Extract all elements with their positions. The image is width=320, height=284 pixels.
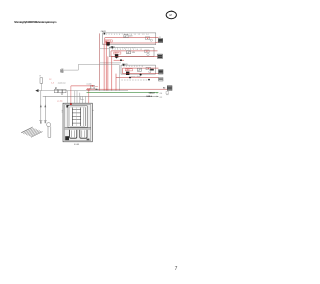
block U3 outline	[121, 65, 155, 74]
red bus vertical 5	[115, 74, 117, 91]
relay (red) box with label U2	[114, 52, 121, 54]
wire below fuse	[40, 83, 42, 90]
svg-text:1 2 3 4 5 6 7 8 9 10 11 12 13: 1 2 3 4 5 6 7 8 9 10 11 12 13 14	[106, 34, 149, 36]
relay (red) box with label U3	[125, 69, 132, 71]
svg-text:p. zas: p. zas	[58, 100, 63, 102]
bottom-left dark block	[65, 136, 69, 140]
svg-text:Schemat ogólny FL 148 z ECS 48: Schemat ogólny FL 148 z ECS 48 i schemat…	[14, 20, 57, 24]
valve symbol box inside U2	[127, 51, 131, 54]
exhaust arrow (left)	[35, 89, 38, 92]
right cylinder	[80, 130, 87, 138]
up arrow on left sensor line	[40, 104, 42, 107]
pressure sensor B1	[86, 84, 94, 89]
wire red U3 top rail	[123, 67, 159, 69]
side channels	[84, 108, 86, 127]
fuse F1	[40, 78, 43, 84]
sensor line right (height sensor rod)	[44, 96, 46, 120]
junction dot on X4 wire	[129, 77, 131, 79]
svg-text:zas.: zas.	[95, 86, 99, 88]
svg-text:O4: O4	[160, 93, 163, 95]
svg-text:X2: X2	[163, 88, 165, 90]
connector X1 (striped)	[158, 37, 162, 43]
connector square on U1 top edge	[104, 33, 106, 35]
wire red to connector X4	[116, 77, 159, 79]
solenoid coil U1 (black)	[106, 42, 109, 45]
left end fitting of gray wire	[80, 96, 84, 99]
coupling on right line	[44, 120, 47, 122]
junction dot bottom of U3	[140, 74, 142, 76]
red bus vertical 1	[103, 43, 105, 91]
svg-text:przew. diagn.: przew. diagn.	[131, 75, 141, 78]
wire red U2 left drop	[110, 51, 112, 57]
indicator circle U3	[146, 67, 151, 70]
wire red U3 bottom rail	[123, 73, 159, 75]
gray CAN wire	[43, 95, 157, 97]
wire red U2 top rail	[111, 50, 158, 52]
indicator circle U2	[145, 50, 150, 53]
ladder rungs	[72, 110, 81, 124]
gray vertical from U3	[119, 65, 121, 90]
junction dot on red stub	[120, 59, 122, 61]
small symbol right of green label	[166, 91, 169, 94]
arrowhead green wire	[157, 92, 159, 93]
block U1 outline	[103, 33, 156, 45]
dashed diagnostic wire	[121, 79, 151, 81]
solenoid coil U3 (black)	[126, 72, 129, 75]
valve symbol box inside U3	[137, 68, 141, 71]
wire: stub to block U3	[100, 62, 121, 64]
red drop to valve block left port	[70, 86, 72, 104]
svg-text:O2: O2	[160, 97, 163, 99]
port ticks on valve case	[62, 110, 94, 112]
silencer (air filter) symbol	[60, 69, 64, 73]
red stub near node	[114, 59, 124, 61]
black arrow on red bus	[96, 89, 99, 90]
coupling on left line	[39, 120, 42, 123]
axle hatch	[21, 127, 42, 137]
wire: left feed vertical from block U1 down to bus	[99, 33, 101, 90]
upper chamber	[68, 106, 87, 128]
svg-text:CAN-L: CAN-L	[146, 95, 153, 98]
directional control valve V1 (3-box symbol)	[54, 88, 66, 95]
svg-text:ECAS: ECAS	[74, 143, 80, 146]
logo	[166, 11, 176, 19]
connector X5 (striped)	[167, 86, 172, 91]
arrowhead gray wire	[157, 96, 159, 97]
red drop to valve block right port	[88, 89, 90, 104]
svg-text:CAN-H: CAN-H	[149, 91, 156, 94]
connector square on U3 top edge	[123, 64, 125, 66]
divider	[65, 128, 91, 129]
junction dot near X4 wire right	[148, 79, 150, 81]
svg-text:12: 12	[49, 79, 51, 81]
outer case	[63, 103, 92, 142]
small fitting on red bus	[88, 88, 90, 90]
height sensor rod	[48, 126, 51, 137]
svg-text:JZ: JZ	[169, 13, 172, 17]
wire red U1 bottom rail	[105, 42, 159, 43]
bottom-right mark	[87, 139, 90, 141]
connector X3 (striped)	[159, 70, 164, 74]
valve symbol box inside U1	[124, 35, 128, 38]
svg-text:1.4: 1.4	[51, 82, 53, 84]
sensor line left (to axle)	[40, 91, 42, 121]
wire red U3 left drop	[122, 68, 124, 74]
up arrow on right sensor line	[44, 104, 46, 107]
wire red U1 left drop	[104, 38, 106, 43]
red bus to connector X5	[86, 88, 167, 90]
connector square on U2 top edge	[112, 46, 114, 48]
red bus vertical 2	[105, 41, 107, 91]
svg-text:X1: X1	[159, 37, 161, 39]
svg-text:zawór poz.: zawór poz.	[58, 82, 67, 85]
height sensor lever circle	[47, 123, 51, 127]
wire from silencer	[64, 65, 120, 71]
indicator circle U1	[145, 37, 150, 40]
black corner block	[66, 105, 68, 107]
connector X4 (small striped)	[159, 78, 164, 81]
svg-text:24N: 24N	[132, 52, 136, 54]
svg-text:1 2 3 4 5 6 7 8 9 10 11: 1 2 3 4 5 6 7 8 9 10 11	[112, 49, 143, 51]
relay (red) box with label U1	[105, 40, 112, 42]
red inlet mark	[70, 103, 72, 105]
solenoid coil U2 (black)	[115, 54, 118, 57]
ladder rails	[72, 108, 80, 127]
svg-text:E: E	[40, 76, 42, 78]
block U2 outline	[109, 48, 154, 57]
green CAN wire	[87, 92, 157, 94]
gray bus line lower	[38, 90, 128, 92]
red bus vertical 3	[107, 56, 109, 90]
svg-text:7: 7	[175, 266, 178, 272]
red supply arrow with label	[71, 85, 92, 87]
red bus vertical 4	[111, 56, 113, 90]
wire: stub to block U2	[100, 48, 110, 50]
left cylinder	[70, 130, 77, 138]
gray drops into valve block top	[66, 91, 68, 104]
wire red U1 top rail	[105, 37, 159, 39]
wire red U2 bottom rail	[111, 55, 158, 57]
svg-text:czujnik: czujnik	[86, 84, 91, 86]
connector X2 (striped)	[158, 54, 163, 58]
